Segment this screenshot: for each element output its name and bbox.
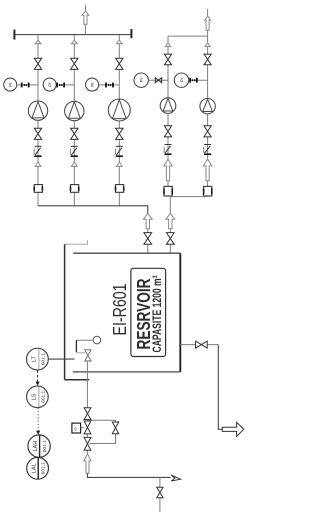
valve inlet 2 bbox=[166, 233, 174, 245]
gauge tap valve col2 bbox=[56, 83, 58, 88]
flange box col1 bbox=[34, 185, 42, 193]
wire bypass loop bbox=[88, 420, 116, 443]
pressure gauge PI col1 bbox=[4, 78, 17, 91]
wire outlet downcomer bbox=[218, 345, 222, 430]
valve discharge col2 bbox=[71, 128, 78, 139]
SUPPLY-HEADER bbox=[14, 5, 210, 40]
wire sampler to valve bbox=[76, 352, 85, 354]
check valve col2 bbox=[71, 145, 78, 147]
COLUMNS bbox=[4, 35, 216, 254]
valve inlet 1 bbox=[144, 233, 152, 245]
valve suction col1 bbox=[34, 58, 41, 69]
valve drain C bbox=[84, 437, 91, 450]
flow arrow 2 col2 bbox=[71, 162, 77, 166]
wire discharge col4 bbox=[167, 113, 169, 196]
valve discharge col3 bbox=[116, 128, 123, 139]
flow arrow 2 col1 bbox=[35, 162, 41, 166]
pressure gauge PI col4 bbox=[134, 73, 148, 87]
gauge tap valve col3 bbox=[105, 83, 107, 88]
flange box col5 bbox=[204, 186, 212, 196]
check valve col3 bbox=[116, 145, 123, 147]
svg-text:CAPASITE 1200 m³: CAPASITE 1200 m³ bbox=[150, 275, 164, 352]
level switch LS 601.1 bbox=[27, 386, 49, 408]
actuator box bbox=[72, 423, 81, 433]
vent arrow up (open) right bbox=[205, 16, 211, 30]
flow arrow col5 bbox=[205, 43, 210, 47]
wire right pumps connector bbox=[168, 35, 208, 37]
valve suction col3 bbox=[116, 58, 123, 69]
check valve col1 bbox=[35, 145, 42, 147]
svg-text:601.1: 601.1 bbox=[40, 353, 46, 365]
wire gauge tap col4 bbox=[148, 79, 168, 81]
gauge tap valve col4 bbox=[155, 78, 161, 83]
wire vent riser right bbox=[207, 9, 209, 36]
wire inlet 2 bbox=[169, 229, 171, 254]
check valve col5 bbox=[204, 144, 211, 146]
wire actuator to valve bbox=[81, 427, 85, 429]
wire bottom run bbox=[88, 473, 171, 477]
wire suction branch col3 bbox=[118, 35, 120, 99]
flange box col4 bbox=[164, 186, 172, 196]
svg-text:LT: LT bbox=[32, 355, 38, 362]
check valve col4 bbox=[165, 144, 172, 146]
level alarm high LAH 601.1 bbox=[28, 435, 50, 457]
TANK bbox=[27, 240, 244, 479]
wire sampler to wall bbox=[76, 339, 93, 341]
wire outlet from tank right bbox=[180, 344, 218, 346]
level alarm low LAL 601.1 bbox=[27, 457, 49, 479]
wire gauge tap col5 bbox=[189, 79, 208, 81]
wire LT tap line bbox=[48, 358, 74, 360]
sampler circle bbox=[93, 336, 101, 344]
wire discharge col5 bbox=[207, 114, 209, 197]
wire suction branch col2 bbox=[73, 35, 75, 102]
wire vent riser left bbox=[84, 5, 86, 35]
tank right wall bbox=[179, 253, 181, 372]
svg-text:EI-R601: EI-R601 bbox=[109, 284, 130, 336]
long flow arrow drain bbox=[84, 454, 91, 474]
wire header line bbox=[15, 34, 132, 36]
BOTTOM bbox=[72, 408, 181, 512]
flange box col2 bbox=[71, 185, 79, 193]
tank sump bottom line bbox=[65, 379, 90, 381]
valve discharge col4 bbox=[164, 126, 171, 137]
flow arrow col3 bbox=[116, 40, 122, 44]
svg-text:LAH: LAH bbox=[33, 441, 39, 452]
valve suction col4 bbox=[164, 54, 171, 65]
wire right collector bbox=[170, 197, 207, 215]
signal LS to LAH (dotted arrow) bbox=[37, 408, 39, 431]
valve suction col5 bbox=[204, 54, 211, 65]
svg-text:PI: PI bbox=[90, 82, 95, 86]
header left end cap bbox=[13, 30, 15, 40]
wire discharge col1 bbox=[37, 120, 39, 206]
valve discharge col1 bbox=[34, 128, 41, 139]
pump P601A bbox=[28, 101, 47, 120]
wire bottom branch down bbox=[159, 477, 161, 512]
long flow arrow col5 bbox=[203, 159, 212, 181]
tank outer head top line bbox=[65, 240, 88, 244]
level transmitter LT 601.1 bbox=[27, 348, 49, 370]
long flow arrow inlet 1 bbox=[143, 213, 152, 229]
valve outlet (horizontal) bbox=[196, 341, 208, 348]
header right end cap bbox=[130, 29, 132, 38]
long flow arrow col4 bbox=[164, 159, 173, 181]
svg-text:PI: PI bbox=[8, 82, 13, 86]
valve suction col2 bbox=[71, 58, 78, 69]
tank bottom edge bbox=[73, 371, 180, 373]
off-page arrow small right bbox=[171, 475, 181, 481]
flange box col3 bbox=[116, 185, 124, 193]
svg-text:601.1: 601.1 bbox=[40, 462, 46, 474]
wire suction branch col1 bbox=[37, 35, 39, 101]
wire left collector bbox=[38, 206, 148, 215]
pump P601D bbox=[160, 98, 176, 114]
flow arrow col4 bbox=[165, 43, 170, 47]
wire inlet 1 bbox=[147, 229, 149, 254]
vent arrow up (open) left bbox=[82, 11, 89, 24]
valve drain B (with actuator) bbox=[84, 421, 91, 434]
valve sampler bbox=[85, 350, 91, 361]
wire discharge col2 bbox=[73, 121, 75, 206]
svg-text:PI: PI bbox=[180, 78, 185, 82]
wire gauge tap col1 bbox=[17, 84, 38, 86]
off-page arrow right (big) bbox=[222, 422, 244, 436]
pressure gauge PI col2 bbox=[43, 78, 56, 91]
svg-text:PI: PI bbox=[139, 78, 144, 82]
svg-text:601.1: 601.1 bbox=[40, 390, 46, 402]
flow arrow col1 bbox=[35, 40, 41, 44]
wire suction branch col5 bbox=[207, 36, 209, 98]
wire drain pipe bbox=[86, 361, 88, 477]
wire suction branch col4 bbox=[167, 36, 169, 98]
pump P601B bbox=[65, 101, 84, 120]
svg-text:LAL: LAL bbox=[31, 463, 37, 473]
gauge tap valve col1 bbox=[21, 83, 23, 88]
pressure gauge PI col5 bbox=[174, 73, 188, 87]
tank left shell wall bbox=[64, 244, 66, 380]
valve bypass bbox=[112, 422, 118, 434]
wire sampler downcomer bbox=[75, 340, 77, 352]
svg-text:601.1: 601.1 bbox=[42, 440, 48, 452]
pump P601C bbox=[108, 99, 130, 121]
flow arrow col2 bbox=[71, 40, 77, 44]
wire discharge col3 bbox=[118, 121, 120, 206]
long flow arrow inlet 2 bbox=[166, 213, 175, 229]
wire gauge tap col3 bbox=[99, 84, 120, 86]
tank top edge bbox=[73, 252, 180, 254]
valve discharge col5 bbox=[204, 126, 211, 137]
wire gauge tap col2 bbox=[56, 84, 74, 86]
flow arrow 2 col3 bbox=[116, 162, 122, 166]
valve drain A bbox=[84, 408, 91, 420]
pump P601E bbox=[200, 99, 215, 114]
signal LT to LS (dashed arrow) bbox=[37, 370, 39, 382]
pressure gauge PI col3 bbox=[86, 78, 99, 91]
valve bottom branch bbox=[157, 487, 163, 498]
gauge tap valve col5 bbox=[189, 78, 191, 83]
svg-text:PI: PI bbox=[48, 82, 53, 86]
svg-text:LS: LS bbox=[32, 393, 38, 400]
tank nameplate box bbox=[131, 268, 166, 356]
